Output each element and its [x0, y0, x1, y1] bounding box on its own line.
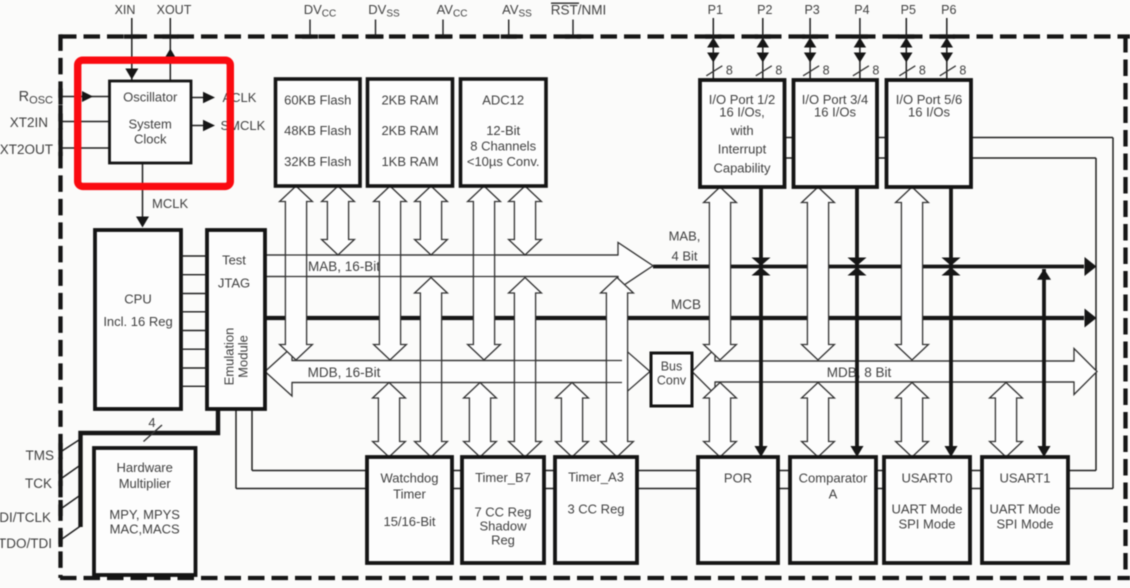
- MDB 8 Bit shaft edges redrawn: [715, 360, 1074, 362]
- MDB 8 Bit data bus: [692, 349, 1097, 395]
- block 60KB/48KB/32KB Flash: [276, 79, 361, 186]
- pin P1 bidirectional arrowheads: [707, 38, 719, 48]
- block Timer_A3: [555, 457, 637, 563]
- svg-text:Shadow: Shadow: [480, 518, 528, 533]
- svg-text:A: A: [829, 486, 838, 501]
- block Timer_B7: [462, 457, 544, 563]
- svg-text:P5: P5: [901, 3, 916, 17]
- svg-text:XOUT: XOUT: [157, 3, 192, 17]
- block USART1: [982, 457, 1068, 563]
- svg-text:MDB, 8 Bit: MDB, 8 Bit: [827, 365, 892, 380]
- block I/O Port 5/6: [887, 80, 972, 187]
- svg-text:JTAG: JTAG: [218, 275, 250, 290]
- pin P1 wire: [712, 18, 714, 80]
- bus arrow MAB to Timer_A3 column: [601, 278, 634, 458]
- svg-text:Test: Test: [222, 252, 246, 267]
- block I/O Port 3/4: [794, 80, 878, 187]
- svg-text:CPU: CPU: [124, 291, 151, 306]
- svg-text:8: 8: [919, 64, 926, 78]
- svg-text:32KB Flash: 32KB Flash: [284, 154, 351, 169]
- svg-text:8: 8: [823, 64, 830, 78]
- pin P2 wire: [762, 18, 764, 80]
- pin AVCC stub wire: [442, 20, 444, 37]
- pin XT2OUT wire: [62, 147, 110, 149]
- svg-text:UART Mode: UART Mode: [891, 501, 962, 516]
- bus arrow RAM to MAB: [415, 186, 448, 255]
- svg-text:SPI Mode: SPI Mode: [898, 516, 955, 531]
- JTAG bundle width slash: [144, 425, 163, 442]
- chip boundary dashed border right: [1123, 36, 1127, 578]
- MCB bus arrowhead: [1085, 309, 1097, 328]
- pin P5 wire: [905, 18, 907, 80]
- svg-text:8: 8: [872, 64, 879, 78]
- MAB 16-Bit address bus: [265, 243, 653, 290]
- thick wire I/O Port 5/6 to USART0 with MAB junction: [949, 187, 953, 446]
- svg-text:2KB RAM: 2KB RAM: [381, 92, 438, 107]
- svg-text:MPY, MPYS: MPY, MPYS: [109, 507, 180, 522]
- svg-text:XIN: XIN: [115, 3, 136, 17]
- svg-text:P6: P6: [941, 3, 956, 17]
- thick wire I/O Port 3/4 to Comparator with MAB junction: [855, 187, 859, 446]
- wire JTAG bundle from Emulation Module to TMS/TCK/TDI/TDO pins: [81, 409, 219, 527]
- svg-text:Timer_B7: Timer_B7: [475, 470, 531, 485]
- thick wire MAB to USART1: [1042, 269, 1046, 446]
- svg-text:TDI/TCLK: TDI/TCLK: [0, 510, 51, 525]
- svg-text:RST/NMI: RST/NMI: [551, 3, 607, 18]
- bus arrow flash to MAB: [322, 186, 355, 255]
- svg-text:MCLK: MCLK: [152, 196, 188, 211]
- svg-text:POR: POR: [724, 470, 752, 485]
- pin P4 bidirectional arrowheads: [854, 38, 866, 48]
- svg-text:16 I/Os: 16 I/Os: [814, 104, 856, 119]
- svg-text:EmulationModule: EmulationModule: [222, 328, 251, 386]
- svg-text:Timer: Timer: [393, 486, 426, 501]
- svg-text:Oscillator: Oscillator: [123, 90, 178, 105]
- block USART0: [884, 457, 970, 563]
- svg-text:4: 4: [148, 415, 155, 430]
- wire right wrap outer vertical: [1112, 138, 1114, 489]
- bus arrow MDB to USART1: [990, 383, 1023, 458]
- svg-text:Timer_A3: Timer_A3: [568, 469, 624, 484]
- chip boundary dashed border bottom: [60, 576, 1130, 580]
- block Bus Conv: [651, 353, 692, 406]
- svg-text:System: System: [129, 117, 172, 132]
- pin P6 bidirectional arrowheads: [941, 38, 953, 48]
- bus arrow I/O Port 5/6 to MDB: [896, 187, 929, 360]
- MDB 16-Bit shaft edges redrawn: [292, 360, 622, 362]
- wire ACLK output: [191, 97, 204, 99]
- bus arrow I/O Port 3/4 to MDB: [802, 187, 835, 360]
- svg-text:<10µs Conv.: <10µs Conv.: [467, 154, 540, 169]
- pin ROSC arrowhead: [82, 91, 93, 102]
- pin P6 bus-width slash and 8 label: [940, 66, 956, 76]
- pin RST/NMI stub wire: [572, 20, 574, 37]
- pin P5 bidirectional arrowheads: [900, 38, 912, 48]
- svg-text:UART Mode: UART Mode: [989, 501, 1060, 516]
- pin P6 wire: [946, 18, 948, 80]
- border ticks at pin crossings: [58, 34, 954, 547]
- svg-text:12-Bit: 12-Bit: [486, 123, 520, 138]
- pin DVCC stub wire: [309, 20, 311, 37]
- block RAM: [368, 79, 453, 186]
- SMCLK arrowhead: [203, 120, 215, 132]
- MAB 16-Bit shaft edges redrawn: [265, 254, 618, 256]
- bus arrow RAM to MDB (tall): [374, 186, 407, 360]
- block Hardware Multiplier: [94, 448, 196, 575]
- chip boundary dashed border left: [58, 34, 62, 578]
- svg-text:2KB RAM: 2KB RAM: [381, 123, 438, 138]
- pin XOUT wire: [169, 18, 171, 81]
- bus arrow MDB to POR: [704, 383, 737, 458]
- svg-text:15/16-Bit: 15/16-Bit: [383, 514, 435, 529]
- svg-text:MCB: MCB: [671, 297, 701, 312]
- bus arrow ADC12 to MDB (tall): [468, 186, 501, 360]
- svg-text:TCK: TCK: [25, 476, 52, 491]
- svg-text:Clock: Clock: [134, 132, 167, 147]
- wire I/O port chain lower: [742, 157, 1096, 159]
- svg-text:MAB,: MAB,: [669, 229, 701, 244]
- svg-text:4 Bit: 4 Bit: [671, 249, 697, 264]
- bus arrow I/O Port 1/2 to MDB: [704, 187, 737, 360]
- svg-text:16 I/Os,: 16 I/Os,: [719, 104, 765, 119]
- svg-text:8: 8: [775, 64, 782, 78]
- bus arrow MAB to Timer_B7 column: [509, 278, 542, 458]
- MAB 4-bit bus arrowhead: [1085, 257, 1097, 276]
- svg-text:P1: P1: [708, 3, 723, 17]
- pin P5 bus-width slash and 8 label: [899, 66, 915, 76]
- ACLK arrowhead: [203, 92, 215, 104]
- svg-text:48KB Flash: 48KB Flash: [284, 123, 351, 138]
- svg-text:Capability: Capability: [713, 160, 771, 175]
- pin TDI/TCLK diagonal wire: [62, 495, 81, 508]
- pin XOUT arrowhead up: [164, 49, 177, 60]
- svg-text:60KB Flash: 60KB Flash: [284, 92, 351, 107]
- pin TCK diagonal wire: [62, 465, 81, 478]
- wires CPU to Test/JTAG register lines: [181, 255, 207, 257]
- thick wire I/O Port 1/2 to POR with MAB junction: [759, 187, 763, 446]
- pin P2 bus-width slash and 8 label: [756, 66, 772, 76]
- wire bottom chain lower: [236, 488, 1113, 490]
- svg-text:XT2IN: XT2IN: [10, 115, 48, 130]
- wire I/O port chain upper: [742, 137, 1113, 139]
- svg-text:Interrupt: Interrupt: [718, 142, 767, 157]
- pin P1 bus-width slash and 8 label: [706, 66, 722, 76]
- svg-text:P3: P3: [804, 3, 819, 17]
- svg-text:P4: P4: [854, 3, 869, 17]
- block Oscillator / System Clock: [110, 81, 192, 163]
- wire emulation to chain lower: [235, 409, 237, 489]
- MAB 4-bit thick bus line: [653, 265, 1084, 269]
- pin AVSS stub wire: [508, 20, 510, 37]
- bus arrow MDB to USART0: [896, 383, 929, 458]
- svg-text:MDB, 16-Bit: MDB, 16-Bit: [308, 365, 381, 380]
- svg-text:Conv: Conv: [657, 374, 687, 388]
- bus arrow MDB to Watchdog: [373, 383, 406, 458]
- bus arrow MDB to Timer_A3: [556, 383, 589, 458]
- svg-text:with: with: [729, 123, 753, 138]
- svg-text:USART0: USART0: [901, 470, 952, 485]
- svg-text:ADC12: ADC12: [482, 92, 524, 107]
- pin P4 wire: [859, 18, 861, 80]
- svg-text:Watchdog: Watchdog: [380, 470, 438, 485]
- pin P3 bidirectional arrowheads: [804, 38, 816, 48]
- svg-text:1KB RAM: 1KB RAM: [381, 154, 438, 169]
- pin XIN arrowhead into oscillator: [125, 69, 138, 80]
- pin DVSS stub wire: [375, 20, 377, 37]
- chip boundary dashed border top: [60, 34, 1130, 38]
- red highlight box around Oscillator/System Clock: [78, 60, 231, 186]
- wire right wrap inner vertical: [1095, 158, 1097, 471]
- svg-text:TDO/TDI: TDO/TDI: [0, 536, 52, 551]
- svg-text:8: 8: [726, 64, 733, 78]
- wire bottom chain upper: [252, 470, 1096, 472]
- block ADC12: [461, 79, 547, 186]
- bus arrow ADC12 to MAB: [509, 186, 542, 255]
- svg-text:16 I/Os: 16 I/Os: [908, 104, 950, 119]
- svg-text:SPI Mode: SPI Mode: [996, 516, 1053, 531]
- pin XT2IN wire: [62, 121, 110, 123]
- pin TMS diagonal wire: [62, 439, 81, 451]
- bus arrow MDB to Comparator A: [802, 383, 835, 458]
- block POR: [698, 457, 778, 563]
- svg-text:Reg: Reg: [491, 532, 515, 547]
- pin P4 bus-width slash and 8 label: [853, 66, 869, 76]
- MDB 16-Bit data bus: [265, 347, 650, 396]
- bus arrow flash to MDB (tall): [280, 186, 313, 360]
- svg-text:MAB, 16-Bit: MAB, 16-Bit: [308, 259, 380, 274]
- svg-text:Comparator: Comparator: [799, 470, 868, 485]
- svg-text:P2: P2: [757, 3, 772, 17]
- bus arrow MAB to Watchdog column: [415, 278, 448, 458]
- pin ROSC wire: [62, 96, 110, 98]
- svg-text:3 CC Reg: 3 CC Reg: [567, 501, 624, 516]
- svg-text:TMS: TMS: [26, 448, 55, 463]
- pin P3 bus-width slash and 8 label: [803, 66, 819, 76]
- svg-text:Hardware: Hardware: [117, 460, 173, 475]
- svg-text:USART1: USART1: [999, 470, 1050, 485]
- pin XIN wire: [131, 18, 133, 80]
- block Test JTAG / Emulation Module: [207, 230, 265, 409]
- bus arrow MDB to Timer_B7: [464, 383, 497, 458]
- svg-text:MAC,MACS: MAC,MACS: [110, 521, 180, 536]
- MCB thick bus line: [265, 316, 1084, 320]
- svg-text:8: 8: [959, 64, 966, 78]
- MCLK arrowhead into CPU: [136, 217, 149, 228]
- pin TDO/TDI diagonal wire: [62, 526, 81, 539]
- pin P2 bidirectional arrowheads: [757, 38, 769, 48]
- svg-text:Multiplier: Multiplier: [119, 476, 172, 491]
- block CPU: [95, 230, 181, 409]
- pin P3 wire: [809, 18, 811, 80]
- wire emulation to chain upper: [251, 409, 253, 471]
- wire MCLK from oscillator to CPU: [142, 163, 144, 224]
- svg-text:XT2OUT: XT2OUT: [0, 142, 53, 157]
- svg-text:Incl. 16 Reg: Incl. 16 Reg: [103, 314, 172, 329]
- svg-text:7 CC Reg: 7 CC Reg: [474, 504, 531, 519]
- block Comparator A: [790, 457, 876, 563]
- wire SMCLK output: [191, 125, 204, 127]
- block Watchdog Timer: [367, 457, 452, 563]
- svg-text:8 Channels: 8 Channels: [470, 138, 536, 153]
- svg-text:Bus: Bus: [661, 360, 683, 374]
- block I/O Port 1/2: [700, 80, 785, 187]
